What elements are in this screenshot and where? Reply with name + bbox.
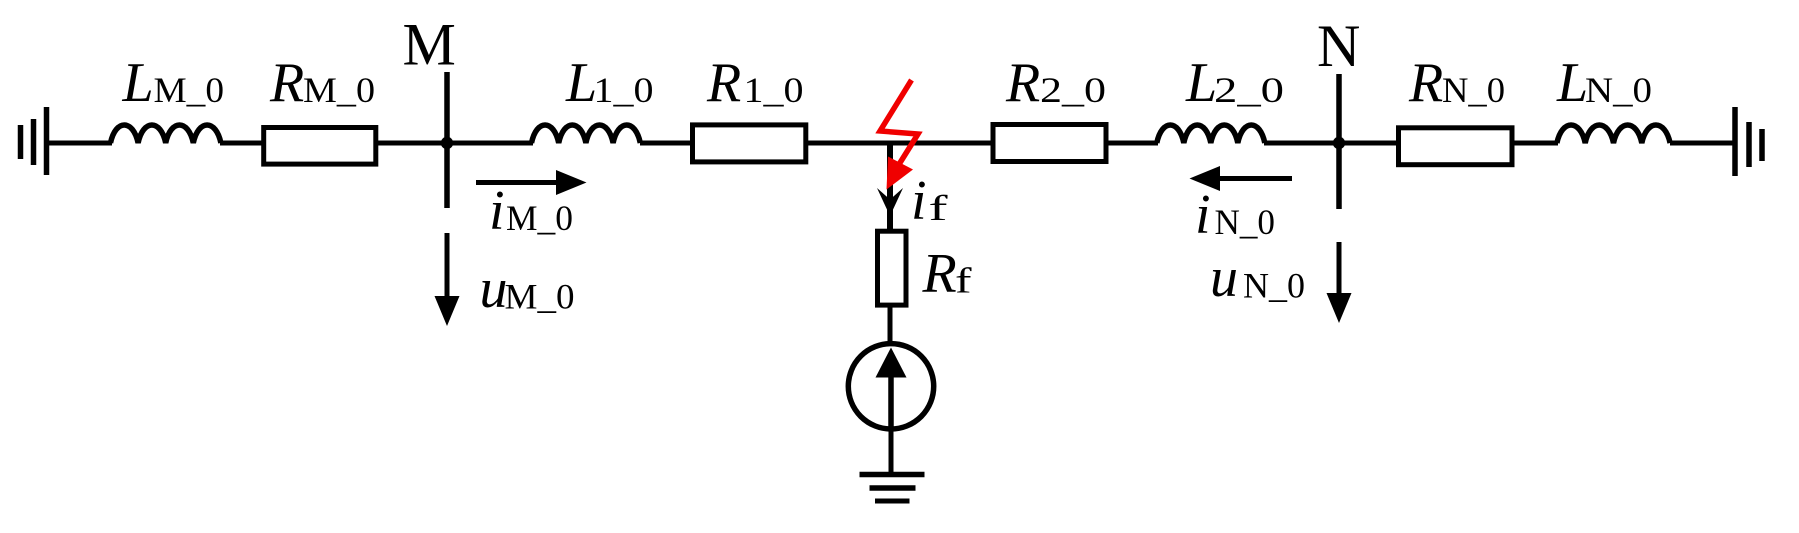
svg-text:M_0: M_0 — [505, 277, 575, 317]
svg-text:N_0: N_0 — [1585, 70, 1652, 110]
label Rf — [922, 243, 972, 305]
svg-text:M_0: M_0 — [303, 70, 375, 110]
svg-text:M: M — [403, 12, 456, 78]
wire: current source to ground — [889, 429, 894, 475]
inductor L1_0 — [532, 125, 641, 143]
label L2_0 — [1185, 52, 1284, 114]
svg-text:L: L — [565, 52, 597, 114]
resistor RN_0 — [1399, 128, 1513, 165]
wire: R1_0 to fault node F — [806, 141, 890, 146]
wire: R2_0 to L2_0 — [1106, 141, 1158, 146]
current source If (circle) — [848, 344, 933, 429]
resistor Rf — [878, 231, 907, 305]
ground (right, N-side source) — [1735, 107, 1762, 176]
wire: fault node F to R2_0 — [890, 141, 992, 146]
label R2_0 — [1005, 52, 1106, 114]
svg-text:1_0: 1_0 — [594, 70, 654, 110]
svg-text:R: R — [922, 243, 957, 305]
svg-text:u: u — [480, 258, 508, 320]
inductor L2_0 — [1157, 125, 1265, 143]
bus N (vertical busbar) — [1336, 74, 1342, 209]
svg-text:R: R — [706, 52, 741, 114]
wire: LM_0 to RM_0 — [220, 141, 263, 146]
node N junction dot — [1333, 137, 1345, 149]
svg-text:L: L — [1185, 52, 1217, 114]
node M junction dot — [441, 137, 453, 149]
label iN_0 — [1195, 184, 1275, 246]
svg-text:i: i — [1195, 184, 1211, 246]
label R1_0 — [706, 52, 804, 114]
label L1_0 — [565, 52, 654, 114]
svg-text:N: N — [1317, 13, 1360, 79]
wire: L1_0 to R1_0 — [640, 141, 693, 146]
wire: bus M to L1_0 — [447, 141, 533, 146]
wire: RN_0 to LN_0 — [1513, 141, 1558, 146]
svg-text:L: L — [122, 52, 154, 114]
wire: Rf to current source — [888, 305, 893, 344]
ground (left, M-side source) — [21, 107, 47, 175]
svg-text:N_0: N_0 — [1442, 70, 1505, 110]
svg-text:R: R — [269, 52, 304, 114]
arrow if (fault current direction) — [877, 188, 903, 216]
svg-text:N_0: N_0 — [1215, 202, 1276, 242]
svg-text:i: i — [911, 170, 927, 232]
svg-text:M_0: M_0 — [154, 70, 225, 110]
ground (fault return) — [860, 475, 925, 502]
label uM_0 — [480, 258, 575, 320]
svg-text:2_0: 2_0 — [1040, 70, 1106, 110]
wire: left ground to LM_0 — [47, 141, 113, 146]
arrow iN_0 — [1190, 166, 1293, 191]
resistor RM_0 — [264, 128, 376, 165]
bus M (vertical busbar) — [444, 72, 450, 208]
resistor R1_0 — [693, 125, 806, 162]
inductor LN_0 — [1557, 125, 1670, 143]
label LN_0 — [1556, 52, 1652, 114]
svg-text:L: L — [1556, 52, 1588, 114]
resistor R2_0 — [993, 125, 1106, 162]
fault branch stem (node F down to Rf) — [887, 143, 893, 231]
label uN_0 — [1210, 247, 1305, 309]
arrow iM_0 — [476, 170, 587, 195]
arrow uM_0 — [435, 233, 460, 326]
label RM_0 — [269, 52, 375, 114]
label LM_0 — [122, 52, 225, 114]
svg-text:i: i — [489, 180, 505, 242]
svg-text:N_0: N_0 — [1243, 266, 1305, 306]
label RN_0 — [1408, 52, 1505, 114]
wire: bus N to RN_0 — [1339, 141, 1398, 146]
wire: LN_0 to right ground — [1670, 141, 1735, 146]
label iM_0 — [489, 180, 573, 242]
wire: RM_0 to bus M — [378, 141, 447, 146]
current source arrow (pointing up) — [876, 348, 907, 428]
label if — [911, 170, 948, 232]
svg-text:f: f — [929, 188, 948, 228]
svg-text:u: u — [1210, 247, 1238, 309]
wire: L2_0 to bus N — [1264, 141, 1339, 146]
svg-text:R: R — [1005, 52, 1040, 114]
svg-text:f: f — [955, 261, 972, 301]
inductor LM_0 — [111, 125, 221, 143]
svg-text:1_0: 1_0 — [744, 70, 804, 110]
svg-text:M_0: M_0 — [506, 198, 573, 238]
svg-text:R: R — [1408, 52, 1443, 114]
svg-text:2_0: 2_0 — [1214, 70, 1284, 110]
arrow uN_0 — [1327, 242, 1352, 323]
lightning fault symbol (red, short-circuit mark) — [880, 80, 918, 190]
